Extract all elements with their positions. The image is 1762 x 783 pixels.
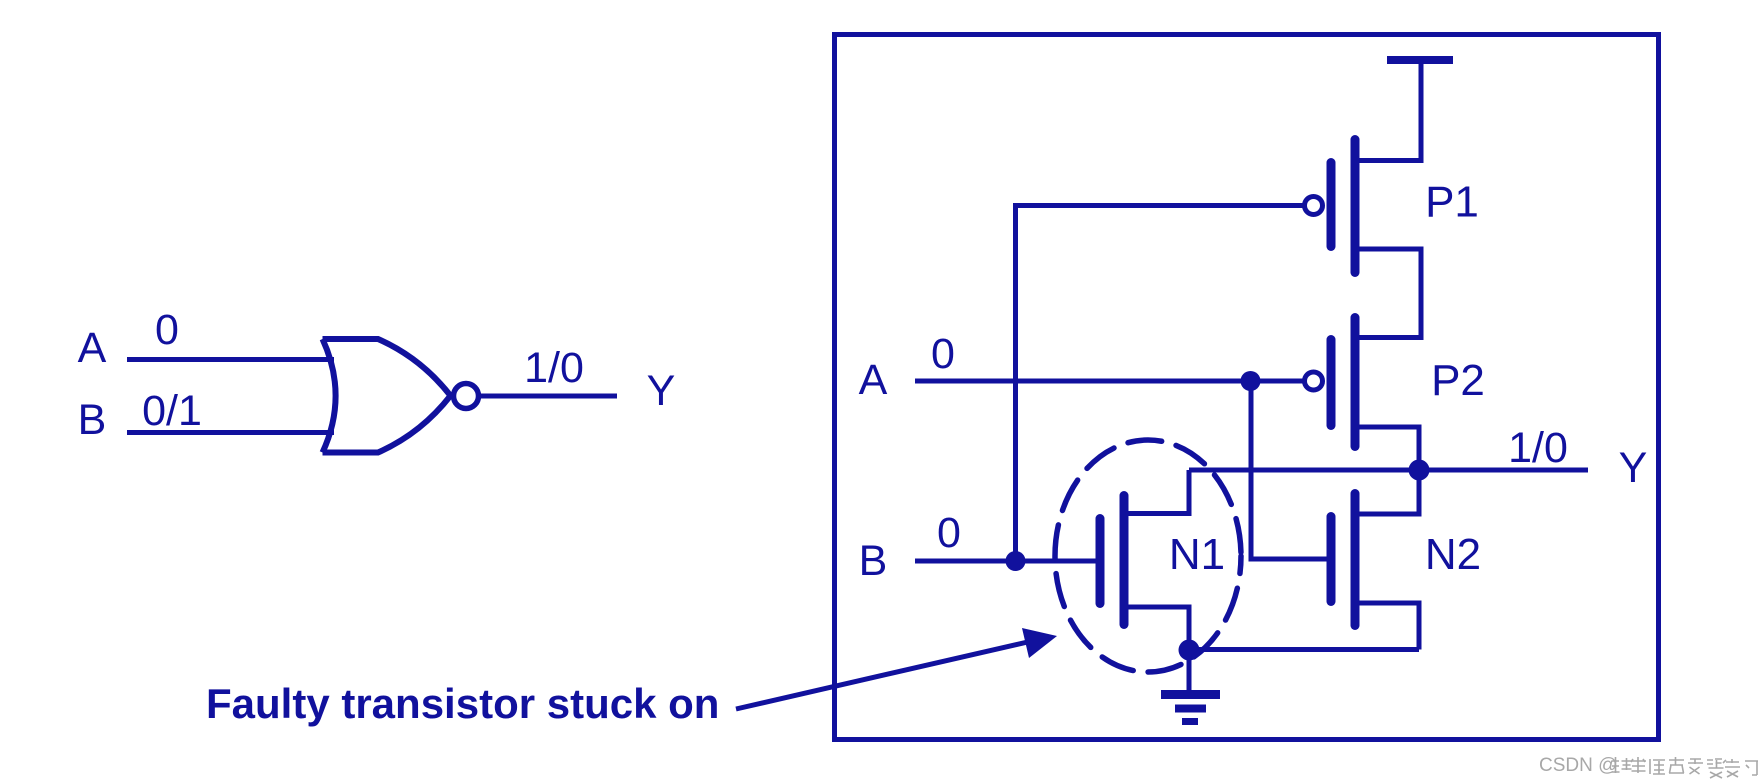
transistor N1 channel bar [1120, 496, 1129, 625]
op P1 gate bubble [1305, 197, 1323, 215]
VDD supply bar [1387, 56, 1453, 64]
transistor P2 gate bar [1327, 340, 1336, 426]
wire ground rail [1189, 647, 1419, 652]
svg-text:P1: P1 [1425, 178, 1479, 227]
wire input A to NOR gate [127, 357, 334, 362]
svg-text:Y: Y [1619, 444, 1648, 492]
annotation arrow head [1022, 628, 1057, 658]
svg-text:Faulty transistor stuck on: Faulty transistor stuck on [206, 680, 719, 727]
node Y junction dot [1409, 460, 1430, 481]
svg-text:N2: N2 [1425, 530, 1481, 579]
NOR gate output bubble [454, 384, 479, 409]
svg-text:0: 0 [937, 509, 961, 557]
svg-text:0: 0 [931, 330, 955, 378]
svg-text:1/0: 1/0 [1508, 424, 1568, 472]
svg-text:0: 0 [155, 306, 179, 354]
ground symbol stem [1187, 650, 1192, 690]
svg-text:B: B [859, 537, 888, 585]
svg-text:B: B [78, 396, 107, 444]
wire P2 drain to output node [1352, 427, 1419, 470]
svg-text:1/0: 1/0 [524, 344, 584, 392]
wire NOR output to Y [481, 394, 617, 399]
svg-text:CSDN @: CSDN @ [1539, 755, 1617, 776]
fault highlight dashed ellipse around N1 [1055, 440, 1241, 672]
schematic enclosure box [835, 35, 1659, 740]
wire P1 drain to P2 source [1352, 249, 1421, 338]
svg-text:Y: Y [647, 367, 676, 415]
ground symbol bar 1 [1161, 690, 1220, 699]
wire N2 source to ground rail [1352, 603, 1419, 650]
wire A-branch down to N2 gate [1251, 381, 1327, 559]
svg-text:A: A [859, 356, 888, 404]
annotation arrow shaft [736, 641, 1032, 709]
node ground junction dot [1179, 640, 1200, 661]
svg-text:P2: P2 [1431, 356, 1485, 405]
ground symbol bar 2 [1175, 705, 1206, 713]
wire output Y [1189, 468, 1588, 473]
node B junction dot [1006, 551, 1026, 571]
transistor P2 gate bubble [1305, 372, 1323, 390]
NOR gate body [323, 339, 451, 453]
svg-text:A: A [78, 324, 107, 372]
wire N2 drain to output node [1352, 470, 1419, 514]
transistor P1 gate bar [1327, 163, 1336, 247]
wire N1 drain to output node [1121, 470, 1189, 514]
transistor P1 channel bar [1351, 140, 1360, 273]
node A junction dot [1241, 371, 1261, 391]
wire input B to N1 gate [915, 559, 1096, 564]
watermark CSDN @... [1539, 755, 1758, 778]
transistor N2 gate bar [1327, 517, 1336, 602]
wire input B to NOR gate [127, 430, 334, 435]
wire B-branch up to P1 gate [1016, 206, 1304, 562]
svg-text:N1: N1 [1169, 530, 1225, 579]
wire N1 source to ground node [1121, 607, 1189, 650]
transistor P2 channel bar [1351, 318, 1360, 447]
svg-text:0/1: 0/1 [142, 387, 202, 435]
wire VDD to P1 source [1352, 63, 1421, 161]
ground symbol bar 3 [1182, 718, 1198, 725]
wire input A to P2 gate [915, 379, 1304, 384]
transistor N2 channel bar [1351, 494, 1360, 626]
transistor N1 gate bar [1096, 519, 1105, 604]
